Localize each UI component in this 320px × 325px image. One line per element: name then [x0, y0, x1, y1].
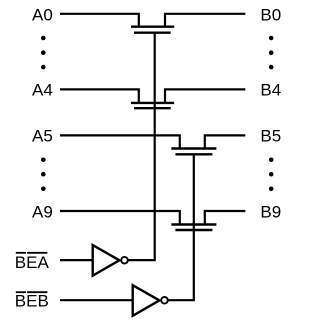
svg-text:A5: A5 [32, 127, 53, 146]
wire B0 to transistor Q1 right stub [165, 14, 245, 27]
transistor Q2 gate bar [134, 107, 171, 109]
wire A9 to transistor Q4 left stub [60, 211, 180, 225]
transistor Q4 channel bar [171, 223, 216, 225]
svg-text:B0: B0 [260, 6, 281, 25]
ellipsis dots left A5-A9 [41, 158, 46, 163]
wire BEA to inverter U1 input [60, 259, 94, 261]
wire B4 to transistor Q2 right stub [165, 89, 245, 103]
inverter U1 bubble [121, 257, 128, 264]
svg-text:BEB: BEB [15, 292, 49, 311]
wire A0 to transistor Q1 left stub [60, 14, 139, 27]
inverter U1 triangle [93, 245, 120, 276]
svg-text:A0: A0 [32, 6, 53, 25]
ellipsis dots right B0-B4 [269, 36, 274, 41]
overline over EB of BEB [27, 291, 47, 293]
wire B5 to transistor Q3 right stub [205, 135, 246, 148]
svg-text:B4: B4 [260, 81, 281, 100]
ellipsis dots right B5-B9 [269, 158, 274, 163]
transistor Q1 channel bar [131, 26, 174, 28]
overline over EA of BEA [27, 252, 47, 254]
svg-text:A4: A4 [32, 81, 53, 100]
transistor Q2 channel bar [131, 102, 174, 104]
transistor Q4 gate bar [175, 229, 212, 231]
wire A4 to transistor Q2 left stub [60, 89, 139, 103]
svg-text:B9: B9 [260, 202, 281, 221]
wire A5 to transistor Q3 left stub [60, 135, 180, 148]
overline over B of BEA [16, 252, 26, 254]
transistor Q3 channel bar [171, 147, 216, 149]
overline over B of BEB [16, 291, 26, 293]
transistor Q3 gate bar [175, 153, 212, 155]
svg-text:BEA: BEA [15, 253, 50, 272]
gate net B: vertical line from Q3 gate through Q4 down to inverter U2 output corner [168, 154, 194, 300]
transistor Q1 gate bar [134, 32, 171, 34]
svg-text:A9: A9 [32, 202, 53, 221]
wire B9 to transistor Q4 right stub [205, 211, 246, 225]
svg-text:B5: B5 [260, 127, 281, 146]
inverter U2 bubble [161, 297, 168, 304]
inverter U2 triangle [133, 285, 160, 316]
wire BEB to inverter U2 input [60, 299, 134, 301]
gate net A: vertical line from Q1 gate through Q2 gate down to inverter U1 output corner [128, 33, 155, 260]
ellipsis dots left A0-A4 [41, 36, 46, 41]
